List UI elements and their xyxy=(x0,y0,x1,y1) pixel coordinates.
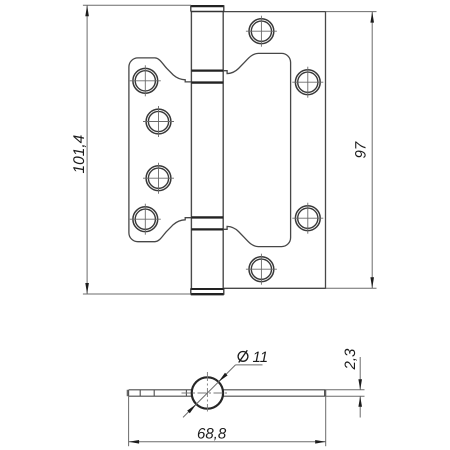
hole R3 xyxy=(292,203,323,234)
bar division c xyxy=(185,390,187,396)
dimension 101,4 xyxy=(71,5,191,294)
right leaf notch contour xyxy=(223,53,290,246)
bar division a xyxy=(139,390,141,396)
svg-text:2,3: 2,3 xyxy=(342,348,359,371)
svg-text:101,4: 101,4 xyxy=(71,134,88,173)
dimension 97 xyxy=(326,12,377,289)
hole R2 xyxy=(292,67,323,98)
hole R4 xyxy=(246,254,277,285)
hole L3 xyxy=(143,163,174,194)
svg-text:11: 11 xyxy=(253,349,269,366)
svg-text:97: 97 xyxy=(353,141,370,158)
hole L1 xyxy=(130,65,161,96)
right leaf outer outline xyxy=(223,12,325,289)
barrel lower joint line 1 xyxy=(191,216,223,218)
barrel circle bottom view xyxy=(192,377,223,408)
barrel upper joint line 1 xyxy=(191,69,223,71)
barrel upper joint line 2 xyxy=(191,81,223,83)
hole R1 xyxy=(246,16,277,47)
barrel bottom cap xyxy=(191,288,224,295)
bottom view bar xyxy=(127,390,325,396)
hole L4 xyxy=(130,204,161,235)
circle centerlines xyxy=(182,372,229,412)
left leaf outline xyxy=(129,58,192,242)
barrel right edge xyxy=(222,12,224,289)
barrel top cap xyxy=(191,5,224,11)
barrel left edge xyxy=(190,12,192,289)
dimension 2,3 xyxy=(326,348,365,418)
hole L2 xyxy=(143,106,174,137)
svg-text:68,8: 68,8 xyxy=(197,426,227,443)
diameter leader Ø11 xyxy=(183,349,268,417)
barrel lower joint line 2 xyxy=(191,228,223,230)
dimension 68,8 xyxy=(129,396,326,446)
bar division b xyxy=(153,390,155,396)
